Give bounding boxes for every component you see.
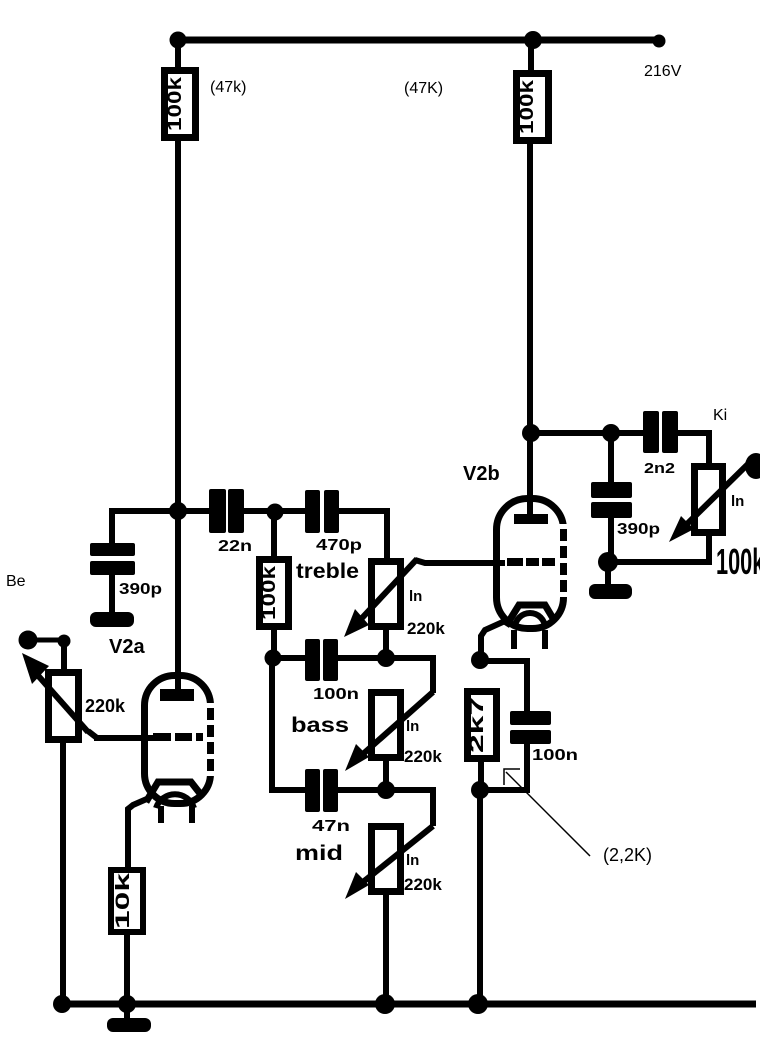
heater pins V2b — [514, 630, 545, 649]
capacitor 390p (right) — [591, 482, 632, 518]
wire 470p to treble pot top — [339, 511, 387, 560]
input terminal Be — [19, 631, 38, 650]
node bass/47n junction — [377, 781, 395, 799]
capacitor 390p (left) — [90, 543, 135, 614]
svg-text:ln: ln — [406, 852, 419, 869]
wire mid bottom to rail — [383, 892, 389, 1004]
node ground rail cathode — [468, 994, 488, 1014]
svg-text:mid: mid — [295, 842, 343, 865]
svg-text:220k: 220k — [407, 619, 445, 638]
node input — [58, 635, 71, 648]
cathode V2a — [146, 782, 202, 808]
capacitor 100n (bass) — [305, 639, 338, 681]
wire 100k to bass node — [271, 627, 277, 659]
resistor 100k (tone stack) — [259, 560, 289, 627]
wire R1 bottom to V2a anode — [175, 137, 181, 692]
wire 100n to treble node — [338, 655, 380, 661]
svg-text:22n: 22n — [218, 538, 252, 555]
node output ground junction — [598, 552, 618, 572]
svg-text:47n: 47n — [312, 818, 350, 835]
capacitor 47n — [305, 769, 338, 812]
svg-text:Ki: Ki — [713, 407, 727, 424]
wire treble node to bass wiper — [386, 658, 433, 693]
wire R2 top lead — [528, 43, 534, 74]
svg-text:2n2: 2n2 — [644, 460, 675, 477]
node 216V supply endpoint — [653, 35, 666, 48]
svg-text:100k: 100k — [716, 542, 760, 582]
wire anode node to 22n — [186, 508, 210, 514]
triode V2a envelope — [145, 676, 219, 804]
svg-text:(47K): (47K) — [404, 80, 443, 97]
wire V2a cathode to 10k — [128, 798, 149, 868]
wire 390p bottom lead — [608, 518, 614, 558]
wire ground rail — [55, 1001, 756, 1008]
wire treble bottom — [383, 630, 389, 658]
svg-text:treble: treble — [296, 560, 359, 583]
potentiometer mid 220k — [345, 826, 433, 899]
svg-text:220k: 220k — [404, 747, 442, 766]
capacitor 470p — [305, 490, 339, 533]
wire 22n to tone node — [244, 508, 272, 514]
capacitor 2n2 — [643, 411, 678, 453]
ground symbol main — [107, 1004, 151, 1032]
wire 220k wiper to V2a grid — [88, 731, 153, 738]
wire 220k bottom to ground rail — [60, 739, 66, 1004]
svg-text:216V: 216V — [644, 63, 682, 80]
wire R1 top lead — [175, 43, 181, 70]
wire 10k to ground rail — [124, 932, 130, 1004]
resistor 100k (right anode load) — [517, 74, 549, 141]
wire V2a grid stub — [94, 735, 153, 741]
capacitor 100n (cathode bypass) — [510, 711, 551, 744]
wire 2n2 to output pot top — [678, 433, 709, 465]
potentiometer treble 220k — [344, 559, 417, 637]
grid V2a — [153, 733, 203, 741]
svg-text:390p: 390p — [119, 581, 162, 598]
wire top supply rail — [175, 37, 661, 44]
wire V2b cathode to 2k7 — [481, 621, 505, 659]
node 2k7/100n junction — [471, 781, 489, 799]
output terminal Ki — [745, 453, 760, 479]
wire bass node down to 47n — [272, 664, 306, 790]
node ground rail left — [53, 995, 71, 1013]
wire bass node to mid wiper — [386, 790, 433, 826]
potentiometer 220k (input volume) — [22, 653, 88, 740]
svg-text:470p: 470p — [316, 537, 362, 554]
ground symbol right — [589, 568, 632, 599]
node treble/100n junction — [377, 649, 395, 667]
wire bass node to 100n — [279, 655, 306, 661]
svg-text:ln: ln — [731, 493, 744, 510]
wire 47n to bass node — [338, 787, 380, 793]
svg-text:100n: 100n — [313, 686, 359, 703]
svg-text:2k7: 2k7 — [467, 697, 488, 753]
svg-text:390p: 390p — [617, 521, 660, 538]
wire R2 bottom to V2b anode — [527, 140, 533, 518]
anode plate V2a — [160, 689, 194, 701]
heater pins V2a — [161, 806, 192, 823]
svg-text:V2b: V2b — [463, 463, 500, 485]
grid V2b — [507, 558, 555, 566]
resistor 100k (left anode load) — [165, 71, 196, 138]
svg-text:(2,2K): (2,2K) — [603, 845, 652, 865]
svg-text:220k: 220k — [404, 875, 442, 894]
wire anode node to 390p — [112, 511, 178, 546]
svg-text:100n: 100n — [532, 747, 578, 764]
node top rail right junction — [524, 31, 542, 49]
wire cathode node to 100n — [485, 661, 527, 712]
triode V2b envelope — [497, 499, 572, 629]
wire treble wiper to V2b grid — [415, 560, 505, 563]
wire 100n bottom to node — [486, 744, 527, 790]
node 22n/470p/100k junction — [267, 504, 284, 521]
wire bass bottom — [383, 758, 389, 790]
node 390p junction — [602, 424, 620, 442]
wire 2k7 bottom — [478, 758, 484, 790]
wire input node to pot top — [61, 646, 67, 672]
svg-text:10k: 10k — [113, 872, 134, 929]
svg-text:ln: ln — [406, 718, 419, 735]
cathode V2b — [506, 605, 554, 628]
node V2a anode junction — [169, 502, 187, 520]
svg-text:100k: 100k — [165, 76, 186, 131]
capacitor 22n — [209, 489, 244, 533]
wire node to 470p — [282, 508, 306, 514]
svg-text:220k: 220k — [85, 696, 126, 716]
svg-text:V2a: V2a — [109, 636, 145, 658]
anode plate V2b — [514, 514, 548, 524]
wire node down to 100k — [271, 519, 277, 558]
wire node to pot bottom — [614, 534, 709, 562]
resistor 2k7 (V2b cathode) — [467, 692, 497, 759]
node ground rail 10k — [118, 995, 136, 1013]
svg-text:Be: Be — [6, 573, 26, 590]
svg-text:(47k): (47k) — [210, 79, 246, 96]
svg-text:100k: 100k — [517, 79, 538, 134]
leader line to (2,2K) — [504, 769, 590, 856]
resistor 10k (V2a cathode) — [111, 870, 143, 932]
svg-text:ln: ln — [409, 588, 422, 605]
node 100k/100n/47n junction — [265, 650, 282, 667]
node top rail left junction — [170, 32, 187, 49]
wire anode node right — [531, 430, 611, 436]
wire 390p right top lead — [608, 439, 614, 484]
node cathode junction — [471, 651, 489, 669]
svg-text:bass: bass — [291, 714, 349, 737]
potentiometer bass 220k — [345, 692, 433, 771]
ground symbol below 390p left — [90, 612, 134, 627]
wire input terminal to node — [36, 638, 60, 643]
svg-text:100k: 100k — [259, 565, 280, 620]
potentiometer 100k output — [669, 464, 748, 542]
wire cathode branch to ground rail — [477, 796, 483, 1004]
node ground rail mid pot — [375, 994, 395, 1014]
wire node to 2n2 — [617, 430, 644, 436]
node V2b anode junction — [522, 424, 540, 442]
